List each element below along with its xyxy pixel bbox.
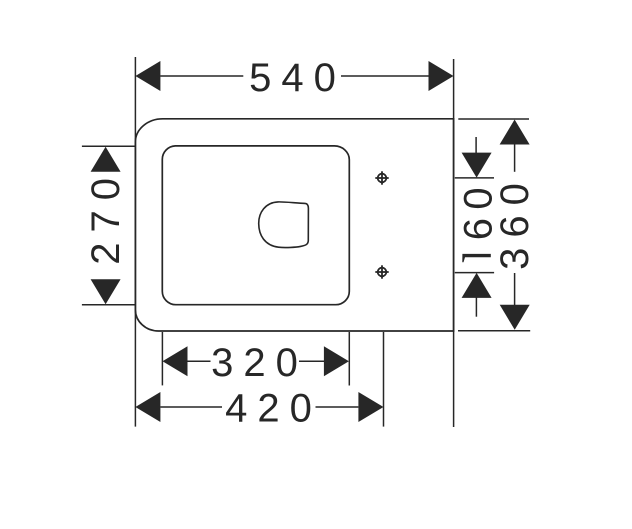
dim 160 stem bottom bbox=[475, 298, 477, 317]
arrow 270 down bbox=[91, 279, 121, 304]
svg-text:320: 320 bbox=[211, 341, 308, 385]
arrow 160 down bbox=[462, 153, 492, 178]
extension line right (x=453.6) bbox=[453, 59, 455, 427]
arrow 540 right bbox=[429, 61, 454, 91]
dim 420 extension right bbox=[383, 332, 385, 427]
dim 320 extension right bbox=[348, 332, 350, 386]
toilet outer outline bbox=[135, 119, 453, 331]
arrow 360 down bbox=[500, 305, 530, 330]
dim 360 stem top bbox=[514, 144, 516, 172]
arrow 360 up bbox=[500, 120, 530, 145]
label 160 (rotated) bbox=[462, 254, 491, 262]
dim 320 extension left bbox=[161, 332, 163, 385]
arrow 420 left bbox=[135, 392, 160, 422]
dim 270 extension top bbox=[82, 145, 135, 147]
svg-text:540: 540 bbox=[249, 56, 346, 100]
arrow 160 up bbox=[462, 273, 492, 298]
svg-text:360: 360 bbox=[493, 173, 537, 270]
arrow 270 up bbox=[91, 147, 121, 172]
arrow 540 left bbox=[135, 61, 160, 91]
mounting hole marker bottom bbox=[375, 265, 388, 278]
mounting hole marker top bbox=[375, 171, 388, 184]
arrow 420 right bbox=[358, 392, 383, 422]
svg-text:270: 270 bbox=[84, 168, 128, 265]
dim 420 line bbox=[160, 406, 222, 408]
arrow 320 right bbox=[324, 346, 349, 376]
dim 160 extension lower bbox=[455, 272, 494, 274]
dim 160 stem top bbox=[475, 137, 477, 153]
drain opening bbox=[259, 202, 309, 248]
dim 360 extension bottom bbox=[458, 330, 530, 332]
dim 360 extension top bbox=[458, 118, 529, 120]
svg-text:420: 420 bbox=[225, 387, 322, 431]
arrow 320 left bbox=[163, 346, 188, 376]
dim 160 extension upper bbox=[455, 177, 494, 179]
dim 360 stem bottom bbox=[514, 273, 516, 307]
toilet inner rim bbox=[162, 146, 349, 305]
dim 540 line bbox=[160, 75, 243, 77]
dim 320 line bbox=[188, 360, 211, 362]
extension line left (x=135) bbox=[134, 57, 136, 427]
dim 270 extension bottom bbox=[82, 304, 135, 306]
